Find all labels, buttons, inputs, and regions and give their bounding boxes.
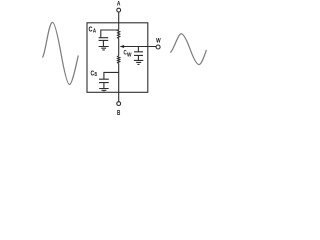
wiper wire bbox=[124, 46, 157, 48]
right sine wave bbox=[170, 34, 206, 65]
box outline bbox=[87, 23, 148, 93]
ground for CW bbox=[134, 60, 143, 64]
svg-text:A: A bbox=[117, 1, 121, 8]
capacitor CW plates bbox=[134, 52, 143, 61]
ground for CA bbox=[99, 47, 109, 50]
resistor RWB (lower zigzag) bbox=[118, 56, 120, 64]
capacitor CB plates bbox=[99, 79, 109, 88]
resistor RAW (upper zigzag) bbox=[118, 30, 120, 39]
capacitor CW stub wire bbox=[137, 47, 139, 52]
capacitor CA stub wire bbox=[101, 30, 119, 38]
svg-text:A: A bbox=[93, 28, 97, 34]
svg-text:W: W bbox=[127, 52, 132, 58]
wire resistor to B bbox=[118, 64, 120, 102]
svg-text:W: W bbox=[156, 38, 161, 45]
terminal B circle bbox=[117, 102, 121, 106]
wire between resistor halves bbox=[118, 39, 120, 56]
capacitor CB stub wire bbox=[104, 72, 119, 79]
left sine wave bbox=[42, 22, 78, 84]
terminal W circle bbox=[156, 45, 160, 49]
wire A to box bbox=[118, 12, 120, 30]
wiper arrow head bbox=[120, 45, 125, 48]
svg-text:B: B bbox=[117, 108, 120, 117]
ground for CB bbox=[99, 89, 109, 93]
capacitor CA plates bbox=[99, 38, 109, 47]
svg-text:B: B bbox=[95, 72, 98, 78]
terminal A circle bbox=[117, 8, 121, 12]
